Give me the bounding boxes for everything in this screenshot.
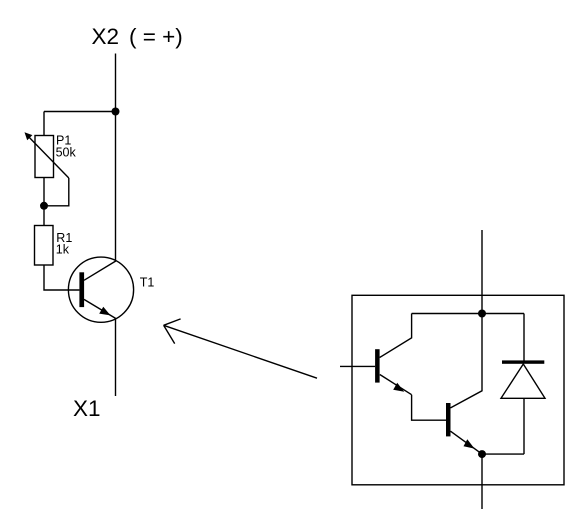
svg-text:50k: 50k: [56, 145, 77, 159]
svg-text:X1: X1: [73, 396, 101, 421]
potentiometer P1 body: [35, 136, 54, 178]
wire horizontal from junction to P1 branch: [44, 111, 116, 113]
svg-text:( = +): ( = +): [129, 24, 183, 49]
diode cathode bar: [502, 360, 544, 363]
transistor T1 base bar: [79, 272, 84, 307]
transistor Q2 base bar: [446, 403, 451, 436]
wire internal collector rail: [412, 313, 524, 315]
svg-text:X2: X2: [92, 24, 120, 49]
transistor Q2 emitter line with arrow: [451, 431, 483, 454]
resistor R1 body: [35, 226, 54, 266]
wire P1 top lead: [43, 112, 45, 136]
wire P1 bottom lead to P1/R1 node: [43, 178, 45, 206]
transistor Q2 collector line: [451, 314, 483, 408]
wire emitter bottom lead: [481, 454, 483, 509]
svg-text:1k: 1k: [56, 243, 70, 257]
potentiometer P1 wiper arrow: [25, 132, 69, 178]
wire collector top lead: [481, 230, 483, 314]
wire X2 lead down to top junction: [115, 54, 117, 112]
detail box outline: [352, 295, 564, 485]
junction dot emitter node: [478, 450, 486, 458]
callout arrow from detail box to T1: [164, 319, 317, 378]
transistor Q1 emitter line with arrow: [380, 375, 412, 395]
wire wiper return to P1/R1 node: [44, 178, 69, 206]
wire Q1 emitter to Q2 base: [412, 395, 446, 421]
wire Q1 collector connection: [380, 314, 412, 358]
junction dot collector rail: [478, 310, 486, 318]
transistor T1 emitter line with arrow: [84, 299, 116, 318]
transistor T1 collector line: [84, 261, 116, 280]
svg-text:T1: T1: [140, 275, 155, 289]
wire node down to R1 top: [43, 206, 45, 226]
wire diode anode lead: [523, 398, 525, 454]
diode triangle: [501, 364, 545, 398]
junction dot at X2 rail / P1 tap: [112, 108, 120, 116]
wire R1 bottom to T1 base: [44, 265, 79, 290]
wire junction down to T1 collector: [115, 112, 117, 261]
wire T1 emitter down to X1: [115, 318, 117, 396]
wire diode cathode lead: [523, 314, 525, 362]
wire Q1 base lead: [340, 365, 375, 367]
transistor Q1 base bar: [375, 349, 380, 382]
junction dot P1/R1 node: [40, 202, 48, 210]
wire emitter node to diode anode branch: [482, 453, 524, 455]
transistor T1 circle: [68, 257, 133, 322]
